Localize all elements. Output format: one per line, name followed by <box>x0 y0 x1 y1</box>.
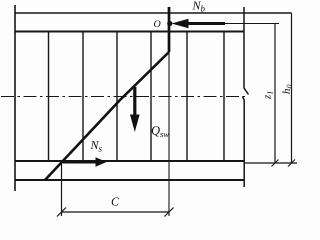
C dimension line <box>62 211 170 213</box>
stirrup line 4 <box>150 32 152 162</box>
force N_s arrow (horizontal, pointing right along bottom chord) <box>63 161 96 164</box>
stirrup line 6 <box>223 32 225 162</box>
stirrup line 2 <box>82 32 84 162</box>
bottom chord top line (N_s line) <box>15 160 244 162</box>
top chord top line <box>15 12 292 14</box>
C dimension left tick <box>57 208 66 217</box>
node O dot <box>167 21 172 26</box>
stirrup line 1 <box>48 32 50 162</box>
stirrup line 3 <box>116 32 118 162</box>
tick at h0 bottom <box>288 160 295 167</box>
C dimension right tick <box>165 208 174 217</box>
vertical extension line under O (C dimension right extension) <box>168 52 170 216</box>
svg-text:C: C <box>111 195 120 209</box>
thin line from N_b tail to z extension <box>225 23 279 25</box>
stirrup line 5 <box>186 32 188 162</box>
member centerline (dash-dot) <box>1 96 248 98</box>
right broken edge of member <box>243 7 249 187</box>
inclined crack line <box>45 52 169 180</box>
bottom chord bottom line <box>15 179 244 181</box>
compression zone vertical (thick) through point O <box>168 7 171 52</box>
dimension line z (vertical, right side) <box>274 24 276 164</box>
tick at z bottom <box>272 160 279 167</box>
left edge of member <box>14 5 16 191</box>
top chord bottom line <box>15 31 244 33</box>
force N_b arrow (horizontal, pointing left to O) <box>188 22 225 25</box>
stirrup force Q_sw arrow (vertical, pointing down from crack) <box>133 87 136 116</box>
dimension line h0 (vertical, far right) <box>291 13 293 163</box>
svg-text:O: O <box>154 19 161 30</box>
bottom reference line for z and h0 <box>244 162 297 164</box>
C dimension left extension line <box>61 161 63 216</box>
